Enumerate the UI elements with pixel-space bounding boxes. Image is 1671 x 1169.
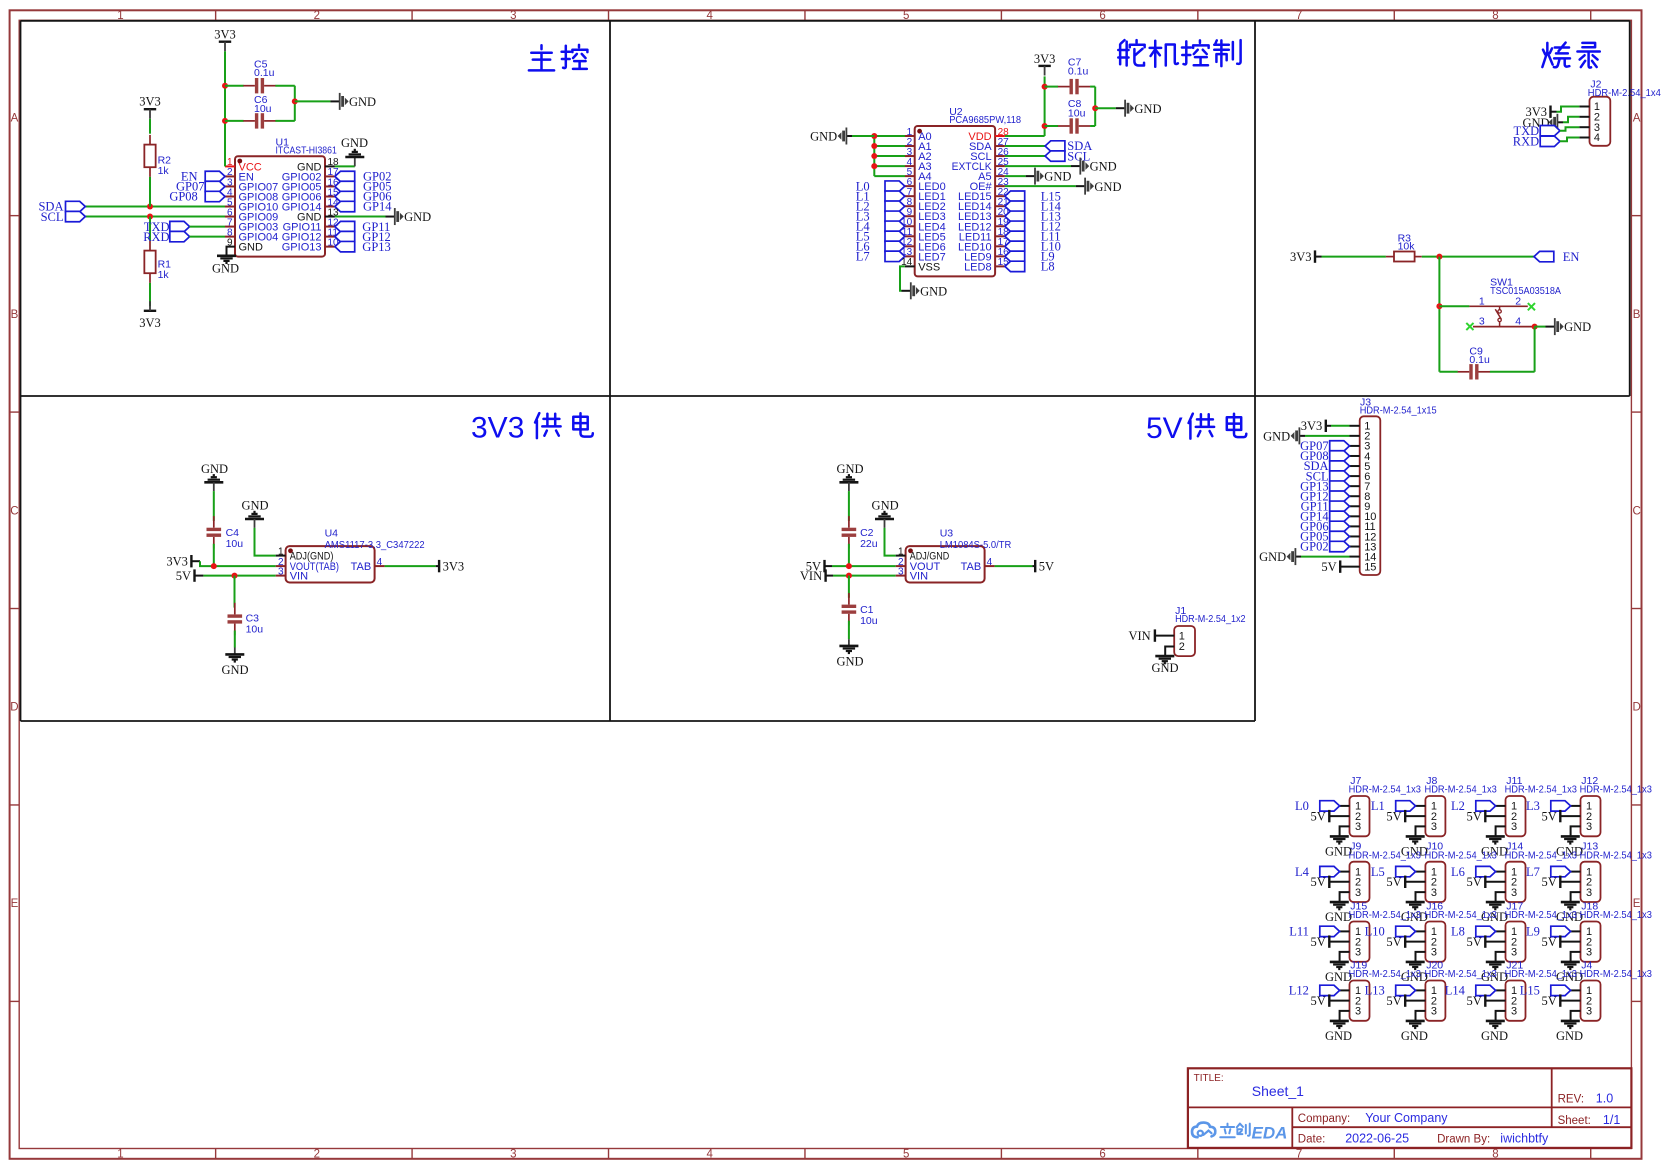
svg-text:B: B (11, 309, 19, 321)
svg-text:GND: GND (1094, 180, 1121, 194)
svg-text:L7: L7 (856, 250, 870, 264)
svg-text:5V: 5V (1321, 560, 1336, 574)
svg-text:3V3: 3V3 (471, 412, 524, 445)
svg-text:ITCAST-HI3861: ITCAST-HI3861 (276, 144, 337, 156)
svg-text:GND: GND (1134, 102, 1161, 116)
svg-text:L14: L14 (1445, 984, 1466, 998)
svg-text:U3: U3 (940, 528, 954, 540)
svg-text:Date:: Date: (1298, 1133, 1326, 1145)
svg-text:GP13: GP13 (362, 240, 390, 254)
svg-text:TAB: TAB (961, 561, 982, 573)
svg-text:U4: U4 (325, 528, 339, 540)
svg-text:GND: GND (341, 136, 368, 150)
svg-text:0.1u: 0.1u (1469, 354, 1490, 366)
svg-text:B: B (1633, 309, 1641, 321)
svg-text:L3: L3 (1526, 799, 1540, 813)
svg-text:3: 3 (1355, 1006, 1361, 1018)
svg-text:LM1084S-5.0/TR: LM1084S-5.0/TR (940, 539, 1012, 551)
svg-text:HDR-M-2.54_1x3: HDR-M-2.54_1x3 (1349, 968, 1421, 980)
svg-text:5V: 5V (1311, 935, 1326, 949)
svg-text:TSC015A03518A: TSC015A03518A (1490, 285, 1561, 297)
svg-text:HDR-M-2.54_1x3: HDR-M-2.54_1x3 (1425, 849, 1497, 861)
svg-text:GND: GND (1481, 1029, 1508, 1043)
svg-text:GND: GND (212, 262, 239, 276)
svg-text:L1: L1 (1371, 799, 1385, 813)
svg-text:1k: 1k (158, 165, 170, 177)
svg-text:SCL: SCL (1067, 149, 1090, 163)
svg-text:GND: GND (1325, 1029, 1352, 1043)
svg-text:GND: GND (1044, 170, 1071, 184)
svg-text:L11: L11 (1289, 925, 1309, 939)
svg-text:VIN: VIN (290, 571, 308, 583)
svg-text:5V: 5V (1542, 810, 1557, 824)
svg-text:L8: L8 (1451, 925, 1465, 939)
svg-text:1: 1 (898, 546, 904, 557)
svg-text:3: 3 (1586, 1006, 1592, 1018)
svg-text:14: 14 (901, 257, 913, 268)
svg-text:10u: 10u (226, 538, 244, 550)
svg-text:3: 3 (1431, 947, 1437, 959)
svg-text:HDR-M-2.54_1x3: HDR-M-2.54_1x3 (1425, 909, 1497, 921)
svg-text:GND: GND (239, 242, 264, 254)
svg-text:3V3: 3V3 (1301, 419, 1323, 433)
svg-text:GND: GND (1151, 661, 1178, 675)
svg-text:5V: 5V (1386, 994, 1401, 1008)
svg-text:L6: L6 (1451, 865, 1465, 879)
svg-text:EN: EN (1563, 250, 1580, 264)
svg-text:HDR-M-2.54_1x3: HDR-M-2.54_1x3 (1505, 909, 1577, 921)
svg-text:5V: 5V (1386, 810, 1401, 824)
svg-text:0.1u: 0.1u (254, 67, 275, 79)
svg-text:5V: 5V (1311, 994, 1326, 1008)
svg-text:5V: 5V (1467, 810, 1482, 824)
svg-text:GND: GND (836, 655, 863, 669)
svg-text:D: D (10, 702, 18, 714)
svg-text:L10: L10 (1365, 925, 1385, 939)
svg-text:L8: L8 (1041, 260, 1055, 274)
svg-text:GND: GND (241, 498, 268, 512)
svg-text:3V3: 3V3 (1034, 52, 1056, 66)
svg-text:1.0: 1.0 (1596, 1091, 1613, 1105)
svg-text:3: 3 (1355, 887, 1361, 899)
svg-text:GND: GND (1263, 429, 1290, 443)
svg-text:GND: GND (404, 210, 431, 224)
svg-text:HDR-M-2.54_1x3: HDR-M-2.54_1x3 (1580, 849, 1652, 861)
svg-text:RXD: RXD (143, 230, 169, 244)
svg-text:GPIO13: GPIO13 (282, 242, 322, 254)
svg-text:3: 3 (1586, 947, 1592, 959)
svg-text:GND: GND (810, 130, 837, 144)
svg-text:E: E (11, 898, 19, 910)
svg-text:3V3: 3V3 (443, 560, 465, 574)
svg-text:2022-06-25: 2022-06-25 (1345, 1131, 1409, 1145)
svg-text:HDR-M-2.54_1x3: HDR-M-2.54_1x3 (1505, 968, 1577, 980)
svg-text:GP02: GP02 (1300, 540, 1328, 554)
svg-text:15: 15 (998, 257, 1010, 268)
svg-text:TAB: TAB (351, 561, 372, 573)
svg-text:3: 3 (898, 566, 904, 577)
svg-text:Company:: Company: (1298, 1113, 1350, 1125)
svg-text:1: 1 (1479, 295, 1485, 307)
svg-text:10u: 10u (860, 615, 878, 627)
svg-text:2: 2 (1515, 295, 1521, 307)
svg-text:L7: L7 (1526, 865, 1540, 879)
svg-text:3: 3 (1431, 821, 1437, 833)
svg-text:5V: 5V (176, 569, 191, 583)
svg-text:HDR-M-2.54_1x4: HDR-M-2.54_1x4 (1588, 87, 1661, 99)
svg-text:0.1u: 0.1u (1068, 66, 1089, 78)
svg-text:L0: L0 (1295, 799, 1309, 813)
svg-text:RXD: RXD (1513, 135, 1539, 149)
svg-text:5V: 5V (1039, 560, 1054, 574)
svg-text:GND: GND (920, 284, 947, 298)
svg-text:HDR-M-2.54_1x15: HDR-M-2.54_1x15 (1360, 404, 1437, 416)
svg-text:L15: L15 (1520, 984, 1540, 998)
svg-text:8: 8 (1492, 1149, 1498, 1161)
svg-text:GND: GND (1556, 1029, 1583, 1043)
svg-text:A: A (11, 112, 19, 124)
svg-text:HDR-M-2.54_1x3: HDR-M-2.54_1x3 (1425, 784, 1497, 796)
svg-text:5V: 5V (1467, 875, 1482, 889)
svg-text:L12: L12 (1289, 984, 1309, 998)
svg-text:VIN: VIN (910, 571, 928, 583)
svg-text:HDR-M-2.54_1x3: HDR-M-2.54_1x3 (1349, 849, 1421, 861)
svg-text:HDR-M-2.54_1x3: HDR-M-2.54_1x3 (1580, 968, 1652, 980)
svg-text:3: 3 (510, 1149, 516, 1161)
svg-text:AMS1117-3.3_C347222: AMS1117-3.3_C347222 (325, 539, 425, 551)
svg-text:3V3: 3V3 (214, 28, 236, 42)
svg-text:GND: GND (1259, 550, 1286, 564)
svg-text:C: C (1632, 505, 1640, 517)
svg-text:Your Company: Your Company (1365, 1111, 1448, 1125)
svg-text:7: 7 (1296, 1149, 1302, 1161)
svg-text:GND: GND (1564, 320, 1591, 334)
svg-text:5: 5 (903, 1149, 909, 1161)
svg-text:3V3: 3V3 (139, 316, 161, 330)
svg-text:3: 3 (1586, 887, 1592, 899)
svg-text:5V: 5V (1467, 935, 1482, 949)
svg-text:GND: GND (872, 498, 899, 512)
svg-text:1: 1 (278, 546, 284, 557)
svg-text:HDR-M-2.54_1x3: HDR-M-2.54_1x3 (1349, 784, 1421, 796)
svg-text:3V3: 3V3 (166, 555, 188, 569)
svg-text:GND: GND (221, 663, 248, 677)
svg-text:5V: 5V (1311, 875, 1326, 889)
svg-text:3V3: 3V3 (1290, 250, 1312, 264)
svg-text:LED8: LED8 (964, 261, 992, 273)
svg-text:GND: GND (349, 95, 376, 109)
svg-text:L13: L13 (1365, 984, 1385, 998)
svg-text:REV:: REV: (1558, 1093, 1584, 1105)
svg-text:HDR-M-2.54_1x2: HDR-M-2.54_1x2 (1175, 613, 1246, 625)
svg-text:1: 1 (117, 1149, 123, 1161)
svg-text:C: C (10, 505, 18, 517)
svg-text:2: 2 (314, 1149, 320, 1161)
svg-text:5V: 5V (1542, 875, 1557, 889)
svg-text:VIN: VIN (800, 569, 822, 583)
svg-text:4: 4 (1594, 132, 1600, 144)
svg-text:1/1: 1/1 (1603, 1113, 1620, 1127)
svg-text:L4: L4 (1295, 865, 1310, 879)
svg-text:5V: 5V (1467, 994, 1482, 1008)
svg-text:3: 3 (1431, 1006, 1437, 1018)
svg-text:1k: 1k (158, 269, 170, 281)
svg-text:Sheet:: Sheet: (1558, 1115, 1591, 1127)
svg-text:SCL: SCL (41, 210, 64, 224)
svg-text:3: 3 (1511, 947, 1517, 959)
svg-text:iwichbtfy: iwichbtfy (1500, 1131, 1549, 1145)
svg-text:3: 3 (1511, 821, 1517, 833)
svg-text:6: 6 (1099, 1149, 1105, 1161)
svg-text:10: 10 (328, 237, 340, 248)
svg-text:3: 3 (1479, 315, 1485, 327)
svg-text:22u: 22u (860, 538, 878, 550)
svg-text:GND: GND (1401, 1029, 1428, 1043)
svg-text:HDR-M-2.54_1x3: HDR-M-2.54_1x3 (1580, 784, 1652, 796)
svg-text:HDR-M-2.54_1x3: HDR-M-2.54_1x3 (1580, 909, 1652, 921)
svg-text:9: 9 (227, 237, 233, 248)
svg-text:3: 3 (278, 566, 284, 577)
svg-text:3: 3 (1355, 947, 1361, 959)
svg-text:HDR-M-2.54_1x3: HDR-M-2.54_1x3 (1505, 849, 1577, 861)
svg-text:HDR-M-2.54_1x3: HDR-M-2.54_1x3 (1349, 909, 1421, 921)
svg-text:VIN: VIN (1128, 629, 1150, 643)
svg-text:5V: 5V (1386, 935, 1401, 949)
svg-text:3: 3 (1511, 887, 1517, 899)
svg-text:5V: 5V (1146, 412, 1183, 445)
svg-text:Drawn By:: Drawn By: (1437, 1133, 1490, 1145)
svg-text:EDA: EDA (1252, 1123, 1288, 1142)
svg-text:PCA9685PW,118: PCA9685PW,118 (949, 114, 1021, 126)
svg-text:TITLE:: TITLE: (1194, 1073, 1224, 1084)
svg-text:4: 4 (1515, 315, 1521, 327)
svg-text:5V: 5V (1386, 875, 1401, 889)
svg-text:4: 4 (707, 1149, 714, 1161)
svg-text:GP14: GP14 (363, 200, 392, 214)
svg-text:10k: 10k (1398, 241, 1416, 253)
svg-text:A: A (1633, 112, 1641, 124)
svg-text:5V: 5V (1542, 994, 1557, 1008)
svg-text:L9: L9 (1526, 925, 1540, 939)
svg-text:3: 3 (1355, 821, 1361, 833)
svg-text:GND: GND (1090, 160, 1117, 174)
svg-text:10u: 10u (254, 103, 272, 115)
svg-text:5V: 5V (1542, 935, 1557, 949)
svg-text:VSS: VSS (918, 261, 940, 273)
svg-text:10u: 10u (1068, 108, 1086, 120)
svg-text:3: 3 (1511, 1006, 1517, 1018)
svg-text:HDR-M-2.54_1x3: HDR-M-2.54_1x3 (1425, 968, 1497, 980)
svg-text:HDR-M-2.54_1x3: HDR-M-2.54_1x3 (1505, 784, 1577, 796)
svg-text:15: 15 (1364, 561, 1376, 573)
svg-text:3: 3 (1431, 887, 1437, 899)
svg-text:Sheet_1: Sheet_1 (1252, 1083, 1304, 1099)
svg-text:3V3: 3V3 (139, 95, 161, 109)
svg-text:D: D (1632, 702, 1640, 714)
svg-text:5V: 5V (1311, 810, 1326, 824)
svg-text:L5: L5 (1371, 865, 1385, 879)
svg-text:L2: L2 (1451, 799, 1465, 813)
svg-text:3: 3 (1586, 821, 1592, 833)
svg-text:10u: 10u (246, 624, 264, 636)
svg-text:2: 2 (1179, 641, 1185, 653)
svg-text:GP08: GP08 (169, 190, 197, 204)
